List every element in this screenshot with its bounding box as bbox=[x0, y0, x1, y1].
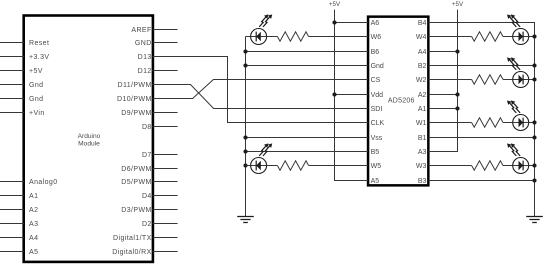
wire LED D2 cathode to ground bus bbox=[246, 165, 251, 167]
wire LED D5 cathode to right ground bus bbox=[529, 122, 535, 124]
wire U2 pin W3 to resistor R6 bbox=[429, 165, 472, 167]
svg-text:+5V: +5V bbox=[452, 1, 464, 8]
U1 pin label D11/PWM bbox=[118, 82, 152, 89]
wire resistor R1 to U2 pin W6 bbox=[309, 36, 368, 38]
svg-text:Reset: Reset bbox=[29, 40, 49, 47]
resistor R6 bbox=[472, 161, 503, 170]
junction gnd/LED D6 bbox=[532, 163, 536, 167]
wire U2 pin B3 to right ground bus bbox=[429, 180, 535, 182]
U1 pin label D4 bbox=[142, 193, 152, 200]
wire U2 pin W2 to resistor R4 bbox=[429, 79, 472, 81]
wire U2 pin A4 to +5V rail bbox=[429, 51, 458, 53]
junction gnd/B1 bbox=[532, 135, 536, 139]
LED D6 bbox=[507, 143, 529, 173]
wire U1 left pin +5V stub bbox=[0, 70, 24, 72]
junction gnd/B6 bbox=[243, 49, 247, 53]
svg-text:A2: A2 bbox=[29, 207, 38, 214]
U1 pin label D10/PWM bbox=[117, 96, 152, 103]
wire resistor R4 to LED D4 bbox=[503, 79, 513, 81]
U1 pin label Digital1/TX bbox=[113, 235, 152, 242]
wire U1 left pin Analog0 stub bbox=[0, 181, 24, 183]
resistor R1 bbox=[277, 32, 308, 41]
wire U2 pin B2 to right ground bus bbox=[429, 65, 535, 67]
svg-text:AD5206: AD5206 bbox=[388, 97, 415, 104]
U2 pin label W4 bbox=[416, 34, 427, 41]
wire U1 D11/PWM to U2 SDI bbox=[153, 85, 368, 109]
wire U1 right pin D12 stub bbox=[153, 70, 178, 72]
svg-text:B5: B5 bbox=[371, 149, 380, 156]
U2 pin label W3 bbox=[416, 163, 427, 170]
power +5V symbol (left) bbox=[329, 1, 341, 8]
wire U1 left pin Gnd stub bbox=[0, 98, 24, 100]
svg-text:B4: B4 bbox=[418, 20, 427, 27]
wire U1 right pin D3/PWM stub bbox=[153, 209, 178, 211]
U2 pin label B3 bbox=[418, 178, 427, 185]
wire U1 right pin GND stub bbox=[153, 42, 178, 44]
svg-text:Digital0/RX: Digital0/RX bbox=[112, 249, 151, 256]
U2 pin label CLK bbox=[371, 120, 385, 127]
U1 pin label D2 bbox=[142, 221, 152, 228]
svg-text:D9/PWM: D9/PWM bbox=[121, 110, 151, 117]
junction +5V/Vdd bbox=[332, 92, 336, 96]
svg-text:D2: D2 bbox=[142, 221, 152, 228]
svg-text:AREF: AREF bbox=[131, 27, 151, 34]
U2 pin label W2 bbox=[416, 77, 427, 84]
wire U1 right pin D11/PWM stub bbox=[153, 84, 178, 86]
svg-text:GND: GND bbox=[135, 40, 152, 47]
svg-text:W4: W4 bbox=[416, 34, 427, 41]
IC U2 AD5206 bbox=[368, 17, 428, 186]
junction gnd/LED D4 bbox=[532, 77, 536, 81]
svg-text:+5V: +5V bbox=[329, 1, 341, 8]
U1 pin label D12 bbox=[138, 68, 152, 75]
U2 pin label B1 bbox=[418, 135, 427, 142]
wire U2 pin A6 to +5V rail bbox=[335, 22, 368, 24]
svg-text:+3.3V: +3.3V bbox=[29, 54, 50, 61]
svg-text:D10/PWM: D10/PWM bbox=[117, 96, 152, 103]
U1 pin label A1 bbox=[29, 193, 38, 200]
svg-text:D6/PWM: D6/PWM bbox=[121, 166, 151, 173]
wire U1 left pin A3 stub bbox=[0, 223, 24, 225]
wire LED D2 to resistor R2 bbox=[267, 165, 278, 167]
wire U1 right pin Digital1/TX stub bbox=[153, 237, 178, 239]
LED D3 bbox=[507, 14, 529, 44]
svg-text:B6: B6 bbox=[371, 49, 380, 56]
wire LED D3 cathode to right ground bus bbox=[529, 36, 535, 38]
wire LED D1 to resistor R1 bbox=[267, 36, 278, 38]
svg-text:Module: Module bbox=[78, 140, 100, 147]
svg-text:B2: B2 bbox=[418, 63, 427, 70]
wire U1 right pin D7 stub bbox=[153, 154, 178, 156]
svg-text:Digital1/TX: Digital1/TX bbox=[113, 235, 152, 242]
junction gnd/LED D5 bbox=[532, 120, 536, 124]
svg-text:A5: A5 bbox=[29, 249, 38, 256]
svg-text:W6: W6 bbox=[371, 34, 382, 41]
U2 pin label Gnd bbox=[371, 63, 384, 70]
wire resistor R2 to U2 pin W5 bbox=[309, 165, 368, 167]
junction +5V/A6 bbox=[332, 20, 336, 24]
resistor R2 bbox=[277, 161, 308, 170]
wire resistor R6 to LED D6 bbox=[503, 165, 513, 167]
wire U1 left pin A5 stub bbox=[0, 251, 24, 253]
junction gnd/B2 bbox=[532, 63, 536, 67]
U2 pin label A1 bbox=[418, 106, 427, 113]
U2 pin label A5 bbox=[371, 178, 380, 185]
junction +5V/A4 bbox=[455, 49, 459, 53]
wire U1 right pin AREF stub bbox=[153, 29, 178, 31]
svg-text:B1: B1 bbox=[418, 135, 427, 142]
U2 pin label A3 bbox=[418, 149, 427, 156]
svg-text:D5/PWM: D5/PWM bbox=[121, 179, 151, 186]
wire LED D4 cathode to right ground bus bbox=[529, 79, 535, 81]
svg-text:A1: A1 bbox=[29, 193, 38, 200]
U2 pin label A4 bbox=[418, 49, 427, 56]
wire U2 pin Vdd to +5V rail bbox=[335, 94, 368, 96]
U1 pin label A2 bbox=[29, 207, 38, 214]
U1 pin label D13 bbox=[138, 54, 152, 61]
svg-text:D7: D7 bbox=[142, 152, 152, 159]
svg-text:A3: A3 bbox=[418, 149, 427, 156]
U1 pin label +5V bbox=[29, 68, 43, 75]
U1 pin label +3.3V bbox=[29, 54, 50, 61]
svg-text:D8: D8 bbox=[142, 124, 152, 131]
wire U2 pin Gnd to ground bus bbox=[246, 65, 368, 67]
wire U2 pin W4 to resistor R3 bbox=[429, 36, 472, 38]
svg-text:Vdd: Vdd bbox=[371, 92, 384, 99]
svg-text:A2: A2 bbox=[418, 92, 427, 99]
svg-text:+5V: +5V bbox=[29, 68, 43, 75]
U1 pin label A5 bbox=[29, 249, 38, 256]
power +5V symbol (right) bbox=[452, 1, 464, 8]
wire U1 right pin D9/PWM stub bbox=[153, 112, 178, 114]
ground symbol (left) bbox=[237, 217, 254, 223]
svg-text:CLK: CLK bbox=[371, 120, 385, 127]
wire U1 right pin D13 stub bbox=[153, 56, 178, 58]
U1 pin label GND bbox=[135, 40, 152, 47]
U2 pin label B5 bbox=[371, 149, 380, 156]
junction gnd/LED D2 anode bbox=[243, 163, 247, 167]
wire U1 left pin A4 stub bbox=[0, 237, 24, 239]
wire U1 left pin +Vin stub bbox=[0, 112, 24, 114]
U2 pin label CS bbox=[371, 77, 381, 84]
wire U2 pin B6 to ground bus bbox=[246, 51, 368, 53]
svg-text:W5: W5 bbox=[371, 163, 382, 170]
U1 pin label Digital0/RX bbox=[112, 249, 151, 256]
U2 pin label B6 bbox=[371, 49, 380, 56]
wire U2 pin W1 to resistor R5 bbox=[429, 122, 472, 124]
U2 pin label W5 bbox=[371, 163, 382, 170]
ground symbol (right) bbox=[526, 217, 543, 223]
svg-text:Gnd: Gnd bbox=[29, 96, 43, 103]
svg-text:A1: A1 bbox=[418, 106, 427, 113]
U2 pin label W1 bbox=[416, 120, 427, 127]
U2 pin label A6 bbox=[371, 20, 380, 27]
wire U1 right pin D4 stub bbox=[153, 195, 178, 197]
U2 pin label Vdd bbox=[371, 92, 384, 99]
U2 pin label Vss bbox=[371, 135, 383, 142]
junction gnd/Vss bbox=[243, 135, 247, 139]
U1 pin label D9/PWM bbox=[121, 110, 151, 117]
junction +5V/A1 bbox=[455, 106, 459, 110]
wire resistor R5 to LED D5 bbox=[503, 122, 513, 124]
svg-text:D11/PWM: D11/PWM bbox=[118, 82, 152, 89]
U1 pin label D8 bbox=[142, 124, 152, 131]
U2 pin label B4 bbox=[418, 20, 427, 27]
svg-text:SDI: SDI bbox=[371, 106, 383, 113]
svg-text:Gnd: Gnd bbox=[371, 63, 384, 70]
LED D5 bbox=[507, 100, 529, 130]
LED D2 bbox=[251, 143, 273, 173]
wire +5V right rail to A4 A2 A1 A3 bbox=[429, 10, 458, 152]
U1 pin label Reset bbox=[29, 40, 49, 47]
wire LED D6 cathode to right ground bus bbox=[529, 165, 535, 167]
wire U1 left pin A2 stub bbox=[0, 209, 24, 211]
wire U1 right pin Digital0/RX stub bbox=[153, 251, 178, 253]
svg-text:A4: A4 bbox=[29, 235, 38, 242]
svg-text:B3: B3 bbox=[418, 178, 427, 185]
wire U2 pin Vss to ground bus bbox=[246, 137, 368, 139]
IC U1 Arduino Module bbox=[24, 16, 153, 262]
svg-text:Vss: Vss bbox=[371, 135, 383, 142]
wire U1 left pin A1 stub bbox=[0, 195, 24, 197]
U1 label Arduino Module bbox=[78, 133, 101, 148]
wire U1 right pin D5/PWM stub bbox=[153, 181, 178, 183]
U2 pin label W6 bbox=[371, 34, 382, 41]
U1 pin label Gnd bbox=[29, 82, 43, 89]
svg-text:W1: W1 bbox=[416, 120, 427, 127]
svg-text:A6: A6 bbox=[371, 20, 380, 27]
wire U1 D13 to U2 CLK bbox=[153, 57, 368, 123]
U1 pin label D7 bbox=[142, 152, 152, 159]
svg-text:A5: A5 bbox=[371, 178, 380, 185]
wire U1 left pin Gnd stub bbox=[0, 84, 24, 86]
U1 pin label A4 bbox=[29, 235, 38, 242]
wire U1 D10/PWM to U2 CS bbox=[153, 80, 368, 99]
resistor R5 bbox=[472, 118, 503, 127]
junction +5V/A2 bbox=[455, 92, 459, 96]
U1 pin label Analog0 bbox=[29, 179, 58, 186]
wire U1 right pin D10/PWM stub bbox=[153, 98, 178, 100]
U1 pin label Gnd bbox=[29, 96, 43, 103]
svg-text:A4: A4 bbox=[418, 49, 427, 56]
U2 pin label SDI bbox=[371, 106, 383, 113]
U1 pin label A3 bbox=[29, 221, 38, 228]
wire resistor R3 to LED D3 bbox=[503, 36, 513, 38]
junction gnd/B5 bbox=[243, 149, 247, 153]
U1 pin label D6/PWM bbox=[121, 166, 151, 173]
svg-text:Arduino: Arduino bbox=[78, 133, 101, 140]
resistor R4 bbox=[472, 75, 503, 84]
svg-text:Gnd: Gnd bbox=[29, 82, 43, 89]
wire U1 right pin D6/PWM stub bbox=[153, 168, 178, 170]
wire U1 left pin Reset stub bbox=[0, 42, 24, 44]
LED D1 bbox=[251, 14, 273, 44]
svg-text:D4: D4 bbox=[142, 193, 152, 200]
svg-text:D3/PWM: D3/PWM bbox=[121, 207, 151, 214]
wire +5V left rail to A6 Vdd A5 bbox=[335, 10, 368, 181]
svg-text:D12: D12 bbox=[138, 68, 152, 75]
U1 pin label AREF bbox=[131, 27, 151, 34]
wire U2 pin A1 to +5V rail bbox=[429, 108, 458, 110]
svg-text:D13: D13 bbox=[138, 54, 152, 61]
U2 label AD5206 bbox=[388, 97, 415, 104]
svg-text:W3: W3 bbox=[416, 163, 427, 170]
wire right ground bus from B4 bbox=[429, 23, 535, 217]
svg-text:A3: A3 bbox=[29, 221, 38, 228]
U2 pin label B2 bbox=[418, 63, 427, 70]
junction gnd/B3 bbox=[532, 178, 536, 182]
wire LED D1 cathode to ground bus bbox=[246, 36, 251, 38]
svg-text:+Vin: +Vin bbox=[29, 110, 45, 117]
U1 pin label D5/PWM bbox=[121, 179, 151, 186]
junction gnd/LED D3 bbox=[532, 34, 536, 38]
U2 pin label A2 bbox=[418, 92, 427, 99]
wire U1 right pin D2 stub bbox=[153, 223, 178, 225]
U1 pin label +Vin bbox=[29, 110, 45, 117]
junction gnd/Gnd bbox=[243, 63, 247, 67]
wire U2 pin B1 to right ground bus bbox=[429, 137, 535, 139]
wire U1 right pin D8 stub bbox=[153, 126, 178, 128]
svg-text:CS: CS bbox=[371, 77, 381, 84]
wire left ground bus bbox=[245, 37, 247, 217]
wire U1 left pin +3.3V stub bbox=[0, 56, 24, 58]
LED D4 bbox=[507, 57, 529, 87]
wire U2 pin A2 to +5V rail bbox=[429, 94, 458, 96]
wire U2 pin B5 to ground bus bbox=[246, 151, 368, 153]
resistor R3 bbox=[472, 32, 503, 41]
svg-text:Analog0: Analog0 bbox=[29, 179, 58, 186]
U1 pin label D3/PWM bbox=[121, 207, 151, 214]
svg-text:W2: W2 bbox=[416, 77, 427, 84]
